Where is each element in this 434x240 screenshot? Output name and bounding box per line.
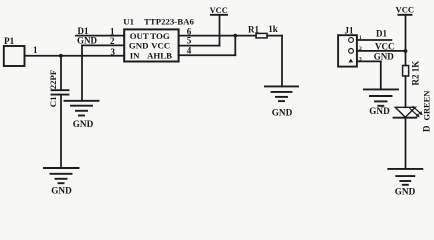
wire net GND to U1 pin2 [77,35,124,45]
svg-text:1k: 1k [268,24,278,34]
svg-text:22PF: 22PF [48,70,58,90]
wire P1 to U1 pin3 [25,55,125,57]
svg-text:3: 3 [111,47,116,57]
svg-text:GND: GND [374,51,395,61]
svg-text:GND: GND [129,41,149,51]
wire net D1 from J1 pin1 [357,29,392,40]
ground (bottom right) [388,169,422,196]
svg-text:VCC: VCC [210,6,228,15]
svg-text:GND: GND [77,35,98,45]
pin 3 arrow mark [348,59,353,63]
wire LED to ground [405,118,407,169]
svg-text:D: D [422,125,432,132]
power VCC (right) [395,5,414,66]
svg-text:TTP223-BA6: TTP223-BA6 [144,16,194,26]
connector J1 [338,25,362,66]
svg-text:VCC: VCC [151,41,170,51]
svg-text:GND: GND [73,119,94,129]
capacitor C1 22PF [48,70,69,107]
node junction VCC/J1 pin2 [404,49,408,53]
resistor R2 1K [403,61,421,86]
svg-text:R2 1K: R2 1K [411,61,421,86]
node junction pin4/pin6 [234,34,238,38]
ground (under pin2 tap) [65,101,99,129]
power VCC (above U1) [210,6,228,46]
node junction at C1 tap [59,54,63,58]
svg-text:OUT: OUT [130,31,149,41]
svg-text:1: 1 [33,45,38,55]
wire U1 pin6 to R1 [179,35,256,37]
svg-text:U1: U1 [123,16,134,26]
svg-text:VCC: VCC [395,5,414,15]
svg-text:TOG: TOG [150,31,170,41]
svg-text:D1: D1 [376,29,387,39]
pin 1 circle [349,38,354,43]
wire U1 pin4 tie to pin6 net [179,36,236,56]
svg-text:GND: GND [369,106,390,116]
ground (under R1) [265,86,298,117]
wire R2 to LED [405,76,407,107]
svg-text:R1: R1 [248,25,259,35]
svg-text:5: 5 [187,36,192,46]
svg-text:IN: IN [130,51,140,61]
op-amp U1 TTP223-BA6 (touch IC) [110,16,194,61]
svg-text:J1: J1 [345,25,355,35]
svg-text:P1: P1 [4,36,15,46]
wire net GND from J1 pin3 to ground [357,51,394,89]
svg-text:AHLB: AHLB [147,51,172,61]
wire junction down to C1 [60,56,62,90]
svg-text:GND: GND [395,186,416,196]
svg-text:GND: GND [51,186,72,196]
pin 2 circle [349,49,354,54]
svg-text:D1: D1 [78,26,89,36]
svg-text:4: 4 [187,45,192,55]
svg-text:GND: GND [272,108,293,118]
ground (bottom left) [44,168,79,196]
wire pin2 tap down to ground [81,45,83,100]
LED D GREEN [394,91,432,132]
ground (under J1) [364,89,398,116]
svg-text:GREEN: GREEN [423,91,432,121]
resistor R1 1k [248,24,278,38]
svg-text:2: 2 [110,36,115,46]
connector P1 [4,36,25,66]
wire C1 to ground [60,95,62,168]
svg-text:VCC: VCC [375,42,395,52]
wire net D1 to U1 pin1 [76,26,124,36]
svg-text:C1: C1 [48,96,58,107]
wire R1 to ground [267,36,282,87]
wire net VCC from J1 pin2 [357,42,406,52]
wire U1 pin5 to VCC [179,45,220,47]
